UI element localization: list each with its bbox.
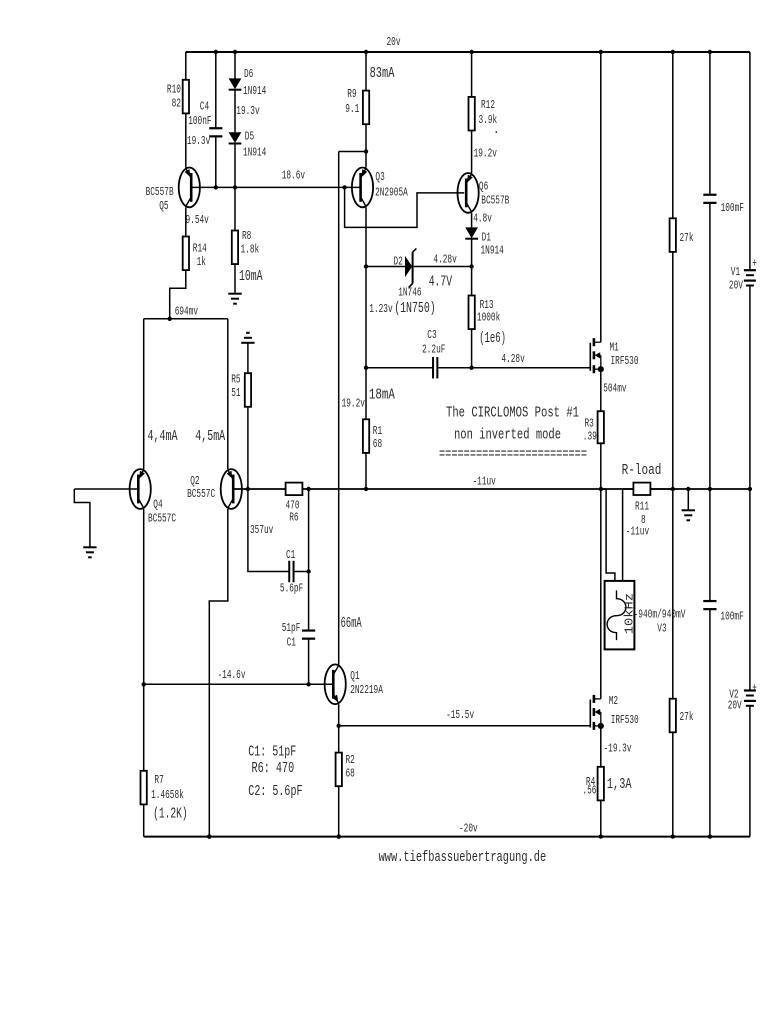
svg-text:Q5: Q5 [159, 199, 168, 213]
wire: Q5 base to Q3 base 18.6v [191, 186, 360, 188]
svg-text:Q6: Q6 [479, 179, 488, 193]
svg-text:4.28v: 4.28v [501, 352, 524, 366]
svg-text:www.tiefbassuebertragung.de: www.tiefbassuebertragung.de [379, 850, 547, 866]
transistor Q4 [130, 469, 151, 509]
ground below R8 [228, 293, 241, 295]
resistor 27k upper [672, 52, 674, 218]
svg-text:Q3: Q3 [375, 170, 384, 184]
svg-text:R6: 470: R6: 470 [252, 761, 295, 777]
svg-text:1.8k: 1.8k [241, 243, 260, 257]
svg-text:5.6pF: 5.6pF [280, 582, 303, 596]
wire: 694mv rail [144, 318, 228, 320]
resistor R7 [141, 771, 147, 805]
wire: Q2 collector to bottom rail [209, 509, 228, 837]
svg-text:20V: 20V [728, 699, 743, 713]
svg-text:357uv: 357uv [250, 523, 273, 537]
svg-text:C1: C1 [286, 548, 295, 562]
resistor R5 [245, 373, 251, 407]
svg-text:C1: C1 [287, 635, 296, 649]
svg-text:20V: 20V [729, 279, 744, 293]
resistor 27k lower [672, 489, 674, 699]
diode D5 [234, 90, 236, 133]
svg-text:1N914: 1N914 [243, 84, 266, 98]
resistor R9 [365, 52, 367, 91]
wire: R5 to mid rail [247, 407, 249, 489]
wire: rail stub to V3 box [601, 488, 606, 490]
svg-text:========================: ======================== [439, 447, 587, 463]
svg-text:51: 51 [231, 386, 240, 400]
wire: input to Q4 base with ground [74, 488, 138, 490]
svg-text:C4: C4 [200, 100, 209, 114]
wire: Q3 emitter to Q1 collector 66mA line [339, 151, 366, 153]
diode D1 [471, 213, 473, 228]
node: top rail junction dots [214, 50, 218, 54]
resistor R10 [185, 52, 187, 80]
svg-text:4.8v: 4.8v [473, 212, 492, 226]
wire: 4.28v gate line with C3 [366, 367, 433, 369]
svg-text:V3: V3 [657, 622, 666, 636]
transistor Q2 [221, 469, 242, 509]
source V3 box [605, 581, 635, 650]
transistor Q6 [458, 173, 479, 213]
svg-text:R12: R12 [481, 98, 495, 112]
svg-text:9.54v: 9.54v [186, 213, 209, 227]
V3 sine wave [607, 590, 626, 640]
svg-text:27k: 27k [680, 710, 694, 724]
resistor R2 [336, 753, 342, 787]
svg-text:.56: .56 [582, 784, 596, 798]
svg-text:(1e6): (1e6) [479, 331, 506, 347]
transistor Q5 [179, 168, 200, 208]
capacitor C4 [215, 52, 217, 128]
svg-text:19.2v: 19.2v [474, 146, 497, 160]
svg-text:2N2905A: 2N2905A [375, 186, 408, 200]
svg-text:19.3v: 19.3v [187, 134, 210, 148]
battery V1 [749, 52, 751, 270]
svg-text:3.9k: 3.9k [479, 113, 498, 127]
svg-text:C2: 5.6pF: C2: 5.6pF [248, 784, 302, 800]
resistor R1 [363, 419, 369, 453]
svg-text:D2: D2 [394, 255, 403, 269]
svg-text:BC557B: BC557B [481, 194, 509, 208]
zener diode D2 [366, 266, 405, 268]
svg-text:non inverted mode: non inverted mode [454, 428, 561, 444]
svg-text:R14: R14 [193, 242, 207, 256]
svg-text:1N746: 1N746 [398, 286, 421, 300]
svg-text:2.2uF: 2.2uF [422, 343, 445, 357]
resistor R8 [234, 187, 236, 230]
svg-text:1N914: 1N914 [243, 146, 266, 160]
svg-text:100mF: 100mF [721, 201, 744, 215]
svg-text:IRF530: IRF530 [611, 354, 639, 368]
svg-text:M2: M2 [609, 694, 618, 708]
svg-text:4.7V: 4.7V [429, 275, 453, 291]
svg-text:R6: R6 [289, 510, 298, 524]
svg-text:10mA: 10mA [239, 269, 263, 285]
svg-text:27k: 27k [680, 231, 694, 245]
wire: Q1 emitter node [338, 704, 340, 752]
wire: C1 loop left side [248, 489, 289, 572]
transistor Q1 [325, 664, 346, 704]
svg-text:(1.2K): (1.2K) [153, 806, 188, 822]
svg-text:R2: R2 [346, 753, 355, 767]
svg-text:R9: R9 [347, 87, 356, 101]
diode D6 [234, 52, 236, 78]
wire: top +20v rail [186, 51, 750, 53]
svg-text:1000k: 1000k [477, 310, 500, 324]
svg-text:-15.5v: -15.5v [446, 708, 474, 722]
svg-text:V1: V1 [731, 265, 740, 279]
svg-text:BC557C: BC557C [187, 487, 215, 501]
svg-text:The CIRCLOMOS Post #1: The CIRCLOMOS Post #1 [446, 406, 579, 422]
wire: Q3 collector column [365, 207, 367, 419]
svg-text:1k: 1k [197, 255, 206, 269]
svg-text:694mv: 694mv [175, 304, 198, 318]
svg-text:R11: R11 [635, 500, 649, 514]
svg-text:D6: D6 [244, 67, 253, 81]
svg-text:D5: D5 [245, 130, 254, 144]
wire: Q3 base loop to Q6 base [345, 187, 465, 227]
wire: Q3 base link from Q5 [342, 185, 346, 189]
mosfet M2 [589, 700, 591, 728]
svg-text:82: 82 [172, 97, 181, 111]
svg-text:M1: M1 [610, 341, 619, 355]
svg-text:C3: C3 [427, 328, 436, 342]
resistor R3 [600, 369, 602, 411]
ground on mid rail [687, 489, 689, 510]
svg-text:R8: R8 [242, 229, 251, 243]
svg-text:51pF: 51pF [282, 621, 301, 635]
svg-text:+: + [752, 257, 757, 271]
svg-text:-11uv: -11uv [473, 474, 496, 488]
svg-text:BC557B: BC557B [146, 185, 174, 199]
svg-text:20v: 20v [387, 35, 401, 49]
svg-text:C1: 51pF: C1: 51pF [248, 744, 296, 760]
svg-text:Q2: Q2 [190, 474, 199, 488]
resistor R4 [600, 726, 602, 767]
resistor R11 R-load [622, 489, 624, 581]
wire: left column down to Q4 [143, 319, 145, 469]
wire: R6 node down through C2 [308, 489, 310, 631]
svg-text:504mv: 504mv [603, 382, 626, 396]
wire: Q1 base wire -14.6v [144, 683, 334, 685]
svg-text:-14.6v: -14.6v [218, 668, 246, 682]
transistor Q3 [352, 168, 373, 208]
wire: R14 to 694mv node [170, 270, 186, 319]
resistor R13 [471, 267, 473, 296]
svg-text:2N2219A: 2N2219A [350, 683, 383, 697]
svg-text:+: + [752, 681, 757, 695]
wire: -15.5v line to M2 gate [339, 725, 591, 727]
svg-text:68: 68 [373, 437, 382, 451]
svg-text:9.1: 9.1 [345, 102, 359, 116]
svg-text:R1: R1 [373, 424, 382, 438]
svg-text:R10: R10 [167, 83, 181, 97]
svg-text:IRF530: IRF530 [611, 713, 639, 727]
power symbol above R5 (inverted ground) [246, 332, 250, 334]
svg-text:1.23v: 1.23v [369, 302, 392, 316]
svg-text:100nF: 100nF [188, 114, 211, 128]
svg-text:-940m/940mV: -940m/940mV [634, 607, 687, 621]
svg-text:-19.3v: -19.3v [604, 742, 632, 756]
svg-text:1.4658k: 1.4658k [151, 788, 184, 802]
svg-text:Q1: Q1 [350, 669, 359, 683]
svg-text:(1N750): (1N750) [394, 301, 436, 317]
ground at input [83, 546, 96, 548]
battery V2 [749, 489, 751, 691]
svg-text:18mA: 18mA [369, 388, 395, 404]
svg-text:4,4mA: 4,4mA [148, 429, 178, 445]
wire: mid rail -11uv [233, 488, 750, 490]
svg-text:68: 68 [346, 767, 355, 781]
capacitor C2 51pF [302, 629, 315, 631]
capacitor 100mF upper [709, 52, 711, 195]
resistor R6 470 [286, 483, 303, 496]
svg-text:Q4: Q4 [153, 498, 162, 512]
svg-text:1N914: 1N914 [481, 244, 504, 258]
svg-text:-11uv: -11uv [626, 525, 649, 539]
svg-text:83mA: 83mA [370, 66, 395, 82]
svg-text:R7: R7 [154, 773, 163, 787]
svg-text:R-load: R-load [622, 463, 662, 479]
svg-text:4,5mA: 4,5mA [195, 429, 225, 445]
resistor R12 [471, 52, 473, 97]
svg-text:.39: .39 [583, 429, 597, 443]
svg-text:-20v: -20v [459, 822, 478, 836]
wire: bottom -20v rail [144, 836, 750, 838]
svg-text:1,3A: 1,3A [607, 777, 632, 793]
wire: Q4 collector column [143, 509, 145, 771]
capacitor C1 5.6pF [288, 561, 290, 583]
svg-text:100mF: 100mF [720, 609, 743, 623]
svg-text:19.2v: 19.2v [342, 396, 365, 410]
svg-text:R5: R5 [231, 373, 240, 387]
capacitor 100mF lower [709, 489, 711, 601]
mosfet M1 [589, 343, 591, 371]
svg-text:4.28v: 4.28v [433, 253, 456, 267]
resistor R14 [185, 207, 187, 236]
svg-text:66mA: 66mA [341, 616, 362, 632]
svg-text:D1: D1 [482, 231, 491, 245]
svg-text:BC557C: BC557C [148, 512, 176, 526]
svg-text:19.3v: 19.3v [236, 104, 259, 118]
wire: Q2 column down [227, 319, 229, 469]
svg-text:18.6v: 18.6v [282, 169, 305, 183]
capacitor C3 2.2uF [432, 357, 434, 379]
